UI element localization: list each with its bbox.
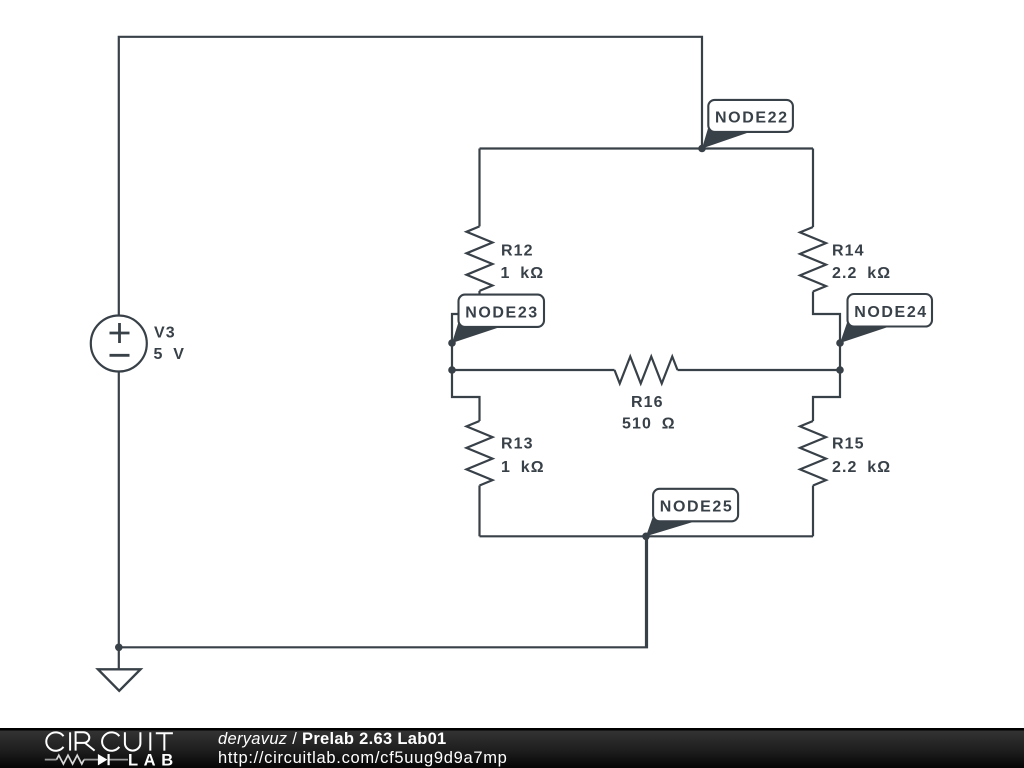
svg-text:R15: R15 — [832, 435, 865, 452]
svg-text:NODE24: NODE24 — [854, 304, 928, 321]
svg-text:R16: R16 — [631, 394, 664, 411]
svg-text:1 kΩ: 1 kΩ — [501, 459, 545, 476]
svg-text:NODE22: NODE22 — [715, 110, 789, 127]
svg-text:1 kΩ: 1 kΩ — [501, 265, 545, 282]
svg-text:5 V: 5 V — [154, 346, 186, 363]
svg-text:NODE23: NODE23 — [465, 304, 539, 321]
svg-text:R13: R13 — [501, 435, 534, 452]
svg-text:510 Ω: 510 Ω — [622, 416, 676, 433]
svg-text:R12: R12 — [501, 243, 534, 260]
svg-text:V3: V3 — [154, 325, 176, 342]
svg-text:NODE25: NODE25 — [660, 499, 734, 516]
svg-text:R14: R14 — [832, 243, 865, 260]
svg-text:2.2 kΩ: 2.2 kΩ — [832, 459, 891, 476]
svg-text:2.2 kΩ: 2.2 kΩ — [832, 265, 891, 282]
svg-text:LAB: LAB — [128, 751, 179, 768]
